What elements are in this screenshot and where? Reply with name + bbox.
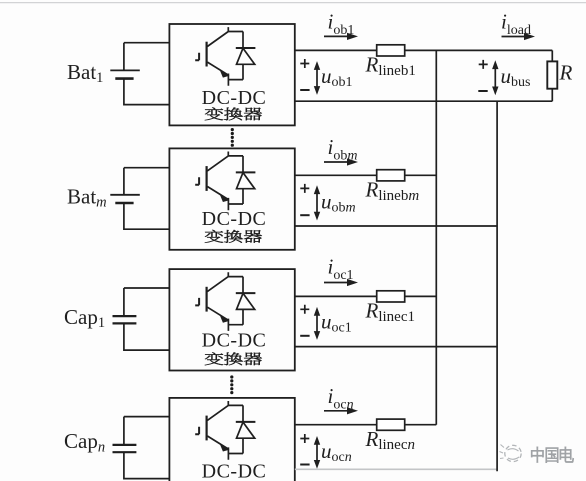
current arrow i_obm bbox=[324, 158, 358, 165]
label 变换器 of converter 2 bbox=[205, 230, 262, 243]
voltage arrow u_obm bbox=[314, 185, 320, 220]
bus A: positive dc bus vertical wire bbox=[435, 50, 437, 424]
wire converter 2 - output bbox=[295, 225, 497, 227]
polarity + of u_obm bbox=[300, 184, 309, 193]
capacitor Cap1 bbox=[113, 316, 137, 323]
IGBT inside converter 3 bbox=[195, 272, 255, 331]
voltage arrow u_ob1 bbox=[314, 61, 320, 95]
IGBT inside converter 4 bbox=[195, 401, 255, 460]
wire converter 4 - output bbox=[295, 468, 497, 470]
current arrow i_ocn bbox=[324, 407, 358, 414]
wire converter 1 + output bbox=[295, 49, 553, 51]
polarity + of u_ocn bbox=[300, 434, 309, 443]
polarity - of u_obm bbox=[300, 214, 309, 216]
wire converter 2 + output bbox=[295, 174, 437, 176]
resistor Rlinec1 bbox=[377, 291, 405, 302]
resistor Rlineb1 bbox=[377, 45, 405, 56]
frame: top border line bbox=[0, 2, 586, 4]
polarity + of u_oc1 bbox=[300, 305, 309, 314]
polarity + of u_bus bbox=[479, 60, 488, 69]
IGBT inside converter 1 bbox=[195, 27, 255, 86]
svg-text:R: R bbox=[559, 61, 573, 85]
wire converter 3 + output bbox=[295, 295, 437, 297]
label 变换器 of converter 3 bbox=[205, 352, 262, 365]
bus B: return dc bus vertical wire bbox=[496, 101, 498, 471]
wire to load resistor bbox=[551, 50, 553, 101]
polarity - of u_ocn bbox=[300, 464, 309, 466]
resistor Rlinecn bbox=[377, 419, 405, 430]
DC-DC converter 3 box bbox=[169, 269, 294, 370]
wire Batm to converter 2 input bbox=[124, 168, 169, 230]
ellipsis dots between converter 3 and 4 bbox=[230, 375, 233, 394]
wire Bat1 to converter 1 input bbox=[124, 43, 169, 105]
current arrow i_oc1 bbox=[324, 279, 358, 286]
svg-text:DC-DC: DC-DC bbox=[202, 208, 267, 230]
watermark logo bbox=[500, 445, 522, 462]
watermark text 中国电 bbox=[531, 447, 574, 463]
current arrow i_load bbox=[502, 33, 536, 40]
wire converter 1 - output bbox=[295, 100, 553, 102]
voltage arrow u_ocn bbox=[314, 436, 320, 469]
voltage arrow u_oc1 bbox=[314, 307, 320, 340]
polarity - of u_bus bbox=[478, 90, 487, 92]
battery Bat1 bbox=[110, 70, 140, 78]
wire converter 4 + output bbox=[295, 424, 437, 426]
polarity - of u_ob1 bbox=[300, 89, 309, 91]
label 变换器 of converter 1 bbox=[205, 107, 262, 120]
voltage arrow u_bus bbox=[492, 60, 498, 95]
polarity + of u_ob1 bbox=[300, 59, 309, 68]
svg-text:DC-DC: DC-DC bbox=[202, 87, 267, 109]
polarity - of u_oc1 bbox=[300, 335, 309, 337]
wire converter 3 - output bbox=[295, 346, 497, 348]
DC-DC converter 4 box bbox=[169, 398, 294, 481]
IGBT inside converter 2 bbox=[195, 152, 255, 211]
DC-DC converter 1 box bbox=[169, 24, 294, 125]
battery Batm bbox=[110, 195, 140, 203]
DC-DC converter 2 box bbox=[169, 148, 294, 249]
wire Cap1 to converter 3 input bbox=[124, 288, 169, 350]
capacitor Capn bbox=[113, 445, 137, 452]
resistor Rlinebm bbox=[377, 170, 405, 181]
current arrow i_ob1 bbox=[324, 33, 358, 40]
load resistor R bbox=[547, 61, 557, 88]
svg-text:DC-DC: DC-DC bbox=[202, 330, 267, 352]
ellipsis dots between converter 1 and 2 bbox=[231, 128, 234, 147]
wire Capn to converter 4 input bbox=[124, 417, 169, 479]
svg-text:DC-DC: DC-DC bbox=[202, 460, 267, 481]
